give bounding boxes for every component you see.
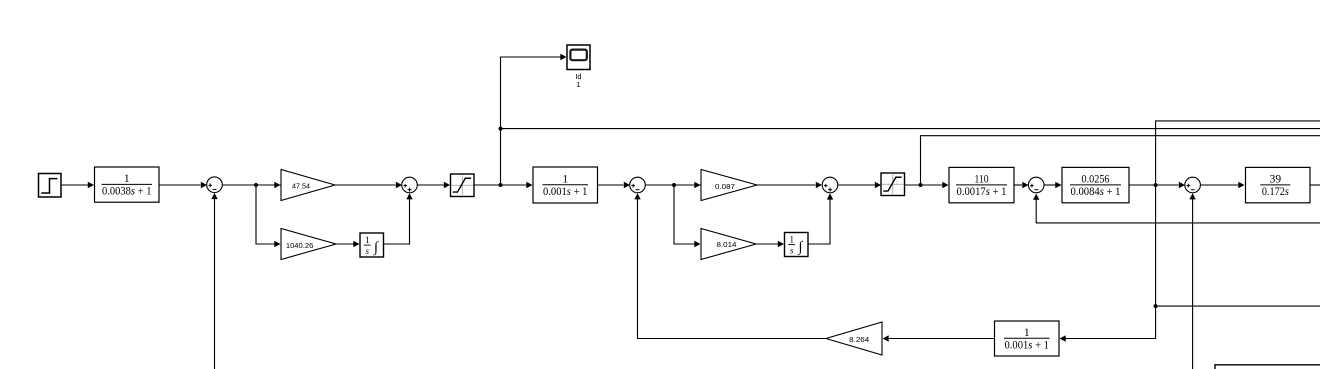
svg-text:s: s (365, 246, 369, 256)
svg-text:0.087: 0.087 (715, 182, 735, 191)
svg-text:0.0017s + 1: 0.0017s + 1 (957, 186, 1007, 198)
svg-text:1: 1 (1024, 327, 1030, 339)
svg-text:1: 1 (124, 173, 130, 185)
svg-text:s: s (790, 246, 794, 256)
svg-text:110: 110 (975, 174, 989, 186)
svg-text:0.001s + 1: 0.001s + 1 (1005, 340, 1050, 352)
svg-text:1: 1 (789, 235, 794, 245)
svg-text:0.0084s + 1: 0.0084s + 1 (1071, 186, 1121, 198)
svg-text:1040.26: 1040.26 (286, 241, 314, 250)
svg-text:1: 1 (562, 173, 568, 185)
svg-text:47.54: 47.54 (292, 181, 310, 190)
svg-text:1: 1 (365, 235, 370, 245)
svg-text:8.014: 8.014 (717, 240, 737, 249)
svg-text:0.001s + 1: 0.001s + 1 (543, 186, 588, 198)
svg-text:0.0038s + 1: 0.0038s + 1 (102, 186, 152, 198)
svg-text:0.172s: 0.172s (1262, 186, 1289, 198)
svg-text:39: 39 (1270, 174, 1282, 186)
svg-text:0.0256: 0.0256 (1082, 174, 1110, 186)
svg-text:1: 1 (576, 80, 580, 89)
svg-text:8.264: 8.264 (849, 335, 869, 344)
